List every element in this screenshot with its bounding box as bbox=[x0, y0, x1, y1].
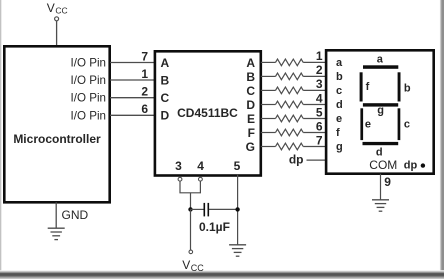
svg-text:6: 6 bbox=[316, 119, 323, 133]
svg-text:g: g bbox=[377, 105, 384, 117]
ground (microcontroller GND) bbox=[48, 228, 65, 239]
segment c bbox=[398, 108, 410, 140]
wire bracket joining pins 3 and 4 bbox=[180, 181, 200, 209]
power Vcc (top, microcontroller supply) bbox=[47, 1, 68, 21]
ground (display COM) bbox=[372, 200, 389, 211]
svg-text:6: 6 bbox=[141, 102, 148, 116]
microcontroller U1 bbox=[4, 46, 109, 202]
resistor R1 (segment a current limit) bbox=[261, 49, 327, 65]
svg-text:I/O Pin: I/O Pin bbox=[71, 57, 106, 70]
wire junction to capacitor C1 bbox=[191, 208, 204, 210]
svg-text:e: e bbox=[336, 113, 342, 125]
svg-text:3: 3 bbox=[316, 77, 323, 91]
svg-text:A: A bbox=[246, 56, 255, 70]
svg-text:f: f bbox=[336, 127, 340, 139]
svg-text:2: 2 bbox=[316, 63, 323, 77]
svg-text:V: V bbox=[47, 1, 55, 15]
junction node (pins 3/4 to Vcc and C1) bbox=[188, 207, 192, 211]
svg-text:3: 3 bbox=[175, 159, 182, 173]
svg-text:0.1µF: 0.1µF bbox=[199, 220, 230, 234]
svg-text:e: e bbox=[365, 118, 371, 130]
svg-text:7: 7 bbox=[141, 49, 148, 63]
svg-text:a: a bbox=[336, 57, 343, 69]
svg-text:D: D bbox=[161, 109, 170, 123]
svg-text:Microcontroller: Microcontroller bbox=[13, 132, 101, 146]
svg-text:f: f bbox=[366, 81, 370, 93]
segment b bbox=[398, 72, 411, 101]
wire COM pin 9 to ground bbox=[381, 174, 392, 200]
wire pin 5 to ground bbox=[237, 175, 239, 245]
svg-text:F: F bbox=[248, 126, 255, 140]
resistor R4 (segment d current limit) bbox=[261, 91, 327, 108]
svg-text:4: 4 bbox=[316, 91, 323, 105]
svg-text:dp: dp bbox=[404, 159, 418, 171]
svg-text:CC: CC bbox=[191, 263, 204, 273]
svg-text:I/O Pin: I/O Pin bbox=[71, 92, 106, 105]
svg-text:5: 5 bbox=[316, 105, 323, 119]
svg-text:a: a bbox=[377, 53, 384, 65]
svg-text:c: c bbox=[404, 118, 410, 130]
node dp (decimal point input, unconnected) bbox=[289, 153, 327, 167]
svg-text:2: 2 bbox=[141, 85, 148, 99]
wire I/O Pin 7 to CD4511BC input A bbox=[110, 49, 155, 63]
resistor R3 (segment c current limit) bbox=[261, 77, 327, 94]
svg-text:GND: GND bbox=[62, 208, 89, 222]
svg-text:d: d bbox=[336, 99, 343, 111]
svg-text:B: B bbox=[161, 73, 170, 87]
svg-text:5: 5 bbox=[234, 159, 241, 173]
power Vcc (bottom, CD4511BC supply) bbox=[182, 250, 204, 273]
resistor R5 (segment e current limit) bbox=[261, 105, 327, 122]
svg-text:C: C bbox=[161, 91, 170, 105]
svg-text:C: C bbox=[246, 84, 255, 98]
svg-text:1: 1 bbox=[316, 49, 323, 63]
svg-text:b: b bbox=[336, 71, 343, 83]
wire I/O Pin 2 to CD4511BC input C bbox=[110, 85, 155, 99]
resistor R7 (segment g current limit) bbox=[261, 133, 327, 150]
svg-text:D: D bbox=[246, 98, 255, 112]
svg-text:CD4511BC: CD4511BC bbox=[177, 106, 238, 120]
wire junction to Vcc (bottom) bbox=[190, 209, 192, 250]
svg-text:9: 9 bbox=[384, 175, 391, 189]
svg-text:d: d bbox=[376, 146, 383, 158]
svg-text:G: G bbox=[246, 140, 255, 154]
svg-text:c: c bbox=[336, 85, 342, 97]
svg-text:A: A bbox=[161, 56, 170, 70]
svg-text:I/O Pin: I/O Pin bbox=[71, 109, 106, 122]
BCD to 7-segment decoder U2 CD4511BC bbox=[155, 51, 261, 175]
segment a bbox=[363, 53, 398, 69]
svg-text:I/O Pin: I/O Pin bbox=[71, 74, 106, 87]
segment d bbox=[363, 142, 399, 158]
wire microcontroller to GND bbox=[56, 202, 88, 228]
resistor R2 (segment b current limit) bbox=[261, 63, 327, 80]
svg-text:4: 4 bbox=[197, 159, 204, 173]
svg-text:CC: CC bbox=[55, 6, 67, 16]
svg-text:g: g bbox=[336, 141, 343, 153]
junction node (pin 5 / C1 / ground) bbox=[235, 207, 239, 211]
svg-text:V: V bbox=[182, 258, 190, 272]
svg-text:dp: dp bbox=[289, 153, 304, 167]
wire I/O Pin 6 to CD4511BC input D bbox=[110, 102, 155, 116]
capacitor C1 0.1uF bbox=[199, 203, 230, 234]
svg-text:7: 7 bbox=[316, 133, 323, 147]
svg-text:B: B bbox=[246, 70, 255, 84]
pin 3 terminal (LT) bbox=[178, 177, 182, 181]
pin 4 terminal (BL) bbox=[199, 177, 203, 181]
segment f bbox=[360, 72, 370, 101]
svg-text:E: E bbox=[247, 112, 255, 126]
svg-text:1: 1 bbox=[141, 67, 148, 81]
wire I/O Pin 1 to CD4511BC input B bbox=[110, 67, 155, 81]
resistor R6 (segment f current limit) bbox=[261, 119, 327, 136]
svg-text:b: b bbox=[404, 83, 411, 95]
7-segment display DS1 bbox=[326, 50, 434, 173]
segment e bbox=[360, 108, 371, 140]
wire capacitor C1 to pin 5 net bbox=[209, 208, 238, 210]
wire Vcc to microcontroller bbox=[56, 21, 58, 46]
segment g bbox=[363, 103, 398, 116]
ground (pin 5 net) bbox=[229, 245, 246, 256]
svg-text:COM: COM bbox=[369, 158, 397, 172]
